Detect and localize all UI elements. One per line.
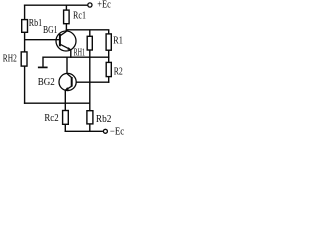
svg-text:Rc1: Rc1 [73, 10, 86, 21]
svg-text:Rb2: Rb2 [96, 114, 112, 125]
svg-text:BG1: BG1 [43, 25, 58, 36]
svg-text:RH1: RH1 [74, 47, 86, 58]
svg-text:Rb1: Rb1 [29, 18, 42, 29]
svg-text:RH2: RH2 [3, 54, 17, 65]
svg-text:Rc2: Rc2 [44, 113, 58, 124]
svg-text:R2: R2 [114, 66, 123, 77]
svg-text:BG2: BG2 [38, 77, 55, 88]
svg-text:+Ec: +Ec [97, 0, 111, 11]
svg-text:R1: R1 [113, 36, 123, 47]
svg-text:−Ec: −Ec [110, 126, 124, 137]
